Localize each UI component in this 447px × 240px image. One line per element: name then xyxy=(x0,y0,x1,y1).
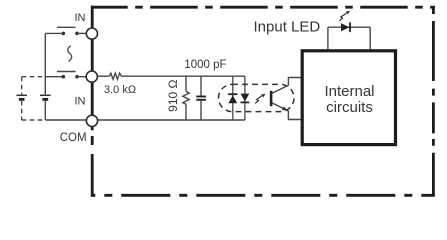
svg-text:IN: IN xyxy=(75,95,86,107)
wire phototransistor emitter to internal circuits xyxy=(288,111,301,120)
battery BT2 positive long plate xyxy=(40,94,51,96)
dashed alternate-polarity branch bottom wire xyxy=(22,119,46,121)
mechanical link squiggle between S1 and S2 xyxy=(68,46,72,62)
bottom COM rail from COM terminal to photocoupler diodes xyxy=(98,119,245,121)
unit enclosure dash-dot border top edge xyxy=(91,6,435,9)
wire switch S2 to IN terminal xyxy=(79,76,87,78)
unit enclosure dash-dot border bottom edge xyxy=(91,194,435,197)
switch S2 left contact dot xyxy=(62,75,66,79)
switch S2 open blade xyxy=(57,71,76,73)
left supply bus vertical wire xyxy=(44,33,46,94)
svg-text:3.0 kΩ: 3.0 kΩ xyxy=(104,84,136,96)
internal circuits box xyxy=(302,51,395,145)
photocoupler LED D2 (anode up) branch xyxy=(241,76,250,120)
input LED wire xyxy=(328,26,370,28)
resistor R1 value label 3.0 kOhm xyxy=(104,84,136,96)
terminal IN (top) circle xyxy=(86,28,97,39)
unit enclosure border left edge dash-dot segment below COM xyxy=(91,127,94,197)
wire bus to COM terminal xyxy=(45,119,86,121)
photocoupler U1 dashed outline xyxy=(219,84,295,111)
svg-text:1000 pF: 1000 pF xyxy=(184,59,226,71)
photocoupler LED D1 (anode down) branch xyxy=(228,76,237,120)
battery BT1 negative short plate xyxy=(19,98,25,101)
terminal COM circle xyxy=(86,115,97,126)
wire phototransistor collector to internal circuits xyxy=(288,78,301,86)
unit enclosure border left edge upper solid segments between terminals xyxy=(91,6,94,116)
svg-text:IN: IN xyxy=(75,12,86,24)
top signal wire from resistor to photocoupler diodes xyxy=(121,75,244,77)
terminal IN (middle) circle xyxy=(86,71,97,82)
resistor R2 value label 910 Ohm (rotated) xyxy=(166,80,180,112)
internal circuits label xyxy=(324,83,374,116)
phototransistor Q1 xyxy=(271,85,288,111)
svg-text:COM: COM xyxy=(60,132,87,144)
wire internal circuits to input LED right stub xyxy=(369,27,371,49)
svg-text:910 Ω: 910 Ω xyxy=(166,80,180,112)
label COM xyxy=(60,132,87,144)
svg-text:Input LED: Input LED xyxy=(254,19,321,36)
switch S1 open blade xyxy=(57,26,76,28)
unit enclosure dash-dot border right edge xyxy=(432,6,435,197)
battery BT1 positive long plate xyxy=(16,94,27,96)
input LED D3 symbol xyxy=(341,22,350,32)
wire from left bus to switch S2 xyxy=(45,76,61,78)
dashed wire down to battery BT1 xyxy=(21,77,23,95)
top signal wire from IN terminal to resistor xyxy=(97,75,109,77)
battery BT2 negative short plate xyxy=(42,98,48,101)
resistor R1 3.0 kOhm zigzag xyxy=(109,73,121,79)
capacitor C1 1000 pF xyxy=(196,76,206,120)
switch S1 right contact dot xyxy=(75,32,79,36)
dashed alternate-polarity branch top wire xyxy=(22,76,46,78)
wire switch S1 to IN terminal xyxy=(79,32,87,34)
input LED light arrow xyxy=(339,11,350,21)
resistor R2 910 Ohm vertical with leads xyxy=(183,76,189,120)
input LED label xyxy=(254,19,321,36)
label IN bottom xyxy=(75,95,86,107)
label IN top xyxy=(75,12,86,24)
dashed wire battery BT1 down xyxy=(21,101,23,120)
capacitor C1 value label 1000 pF xyxy=(184,59,226,71)
svg-text:Internal: Internal xyxy=(324,83,374,100)
photocoupler light arrow xyxy=(255,94,265,104)
switch S2 right contact dot xyxy=(75,75,79,79)
wire battery BT2 to COM rail xyxy=(44,101,46,120)
wire from left bus to switch S1 xyxy=(45,32,61,34)
svg-text:circuits: circuits xyxy=(326,99,373,116)
wire internal circuits to input LED left stub xyxy=(327,27,329,49)
switch S1 left contact dot xyxy=(62,32,66,36)
